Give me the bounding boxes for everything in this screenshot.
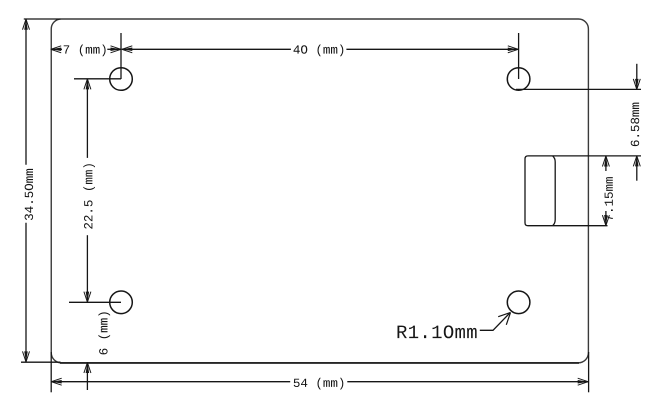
hole bottom-left: [110, 291, 133, 314]
arrow 54mm right: [578, 378, 589, 385]
dimension 7.15mm: shafts: [605, 156, 607, 171]
dimension 54 (mm): line segments: [51, 381, 290, 383]
arrow 7mm right: [111, 46, 122, 53]
arrow 6.58mm up: [633, 156, 640, 167]
label 34.50mm (rotated): [25, 169, 34, 220]
board bottom edge emphasis: [60, 362, 579, 364]
arrow 54mm left: [51, 378, 62, 385]
dimension 7 (mm): line segments: [51, 48, 62, 50]
extension line bottom-left of board: [21, 361, 61, 363]
center tick horizontal, top-left hole: [74, 78, 121, 80]
leader line for R1.10mm: [480, 313, 510, 331]
arrow 6.58mm down: [633, 79, 640, 90]
extension line top-left of board: [24, 18, 61, 20]
dimension 22.5 (mm): vertical line segments: [86, 79, 88, 158]
arrow 40mm left: [122, 46, 133, 53]
arrow 7mm left: [51, 46, 62, 53]
arrow 34.5mm up: [23, 19, 30, 30]
arrow 40mm right: [508, 46, 519, 53]
arrow 22.5mm up: [84, 79, 91, 90]
hole top-right: [507, 68, 530, 91]
label 54 (mm): [294, 378, 344, 390]
hole top-left: [110, 68, 133, 91]
label 7 (mm): [64, 45, 106, 57]
arrow 6mm up: [84, 363, 91, 374]
label 40 (mm): [294, 45, 344, 57]
arrow 34.5mm down: [23, 351, 30, 362]
label 22.5 (mm) (rotated): [83, 164, 95, 229]
dimension 6.58mm: shafts: [636, 64, 638, 90]
hole bottom-right: [507, 291, 530, 314]
connector outline: [525, 156, 641, 226]
dimension 6 (mm): arrow shaft below board: [86, 363, 88, 391]
center tick vertical, top-left hole: [120, 33, 122, 79]
center tick horizontal, bottom-left hole: [69, 301, 121, 303]
label 6.58mm (rotated): [631, 103, 640, 147]
leader arrowhead (open): [498, 313, 510, 325]
dimension 34.50mm: vertical line segments: [25, 19, 27, 165]
label 6 (mm) (rotated): [98, 312, 110, 354]
label R1.10mm: [398, 325, 477, 338]
board outline (rounded rectangle): [51, 19, 588, 363]
arrow 22.5mm down: [84, 292, 91, 303]
dimension 40 (mm): line segments: [122, 48, 291, 50]
connector seam line: [553, 156, 556, 226]
arrow 7.15mm down: [602, 215, 609, 226]
arrow 7.15mm up: [602, 156, 609, 167]
extension line right edge below board: [588, 352, 590, 392]
extension line left edge below board: [50, 352, 52, 392]
center tick vertical, top-right hole: [518, 33, 520, 79]
reference line from top-right hole (6.58 top): [516, 88, 641, 90]
label 7.15mm (rotated): [605, 177, 613, 220]
